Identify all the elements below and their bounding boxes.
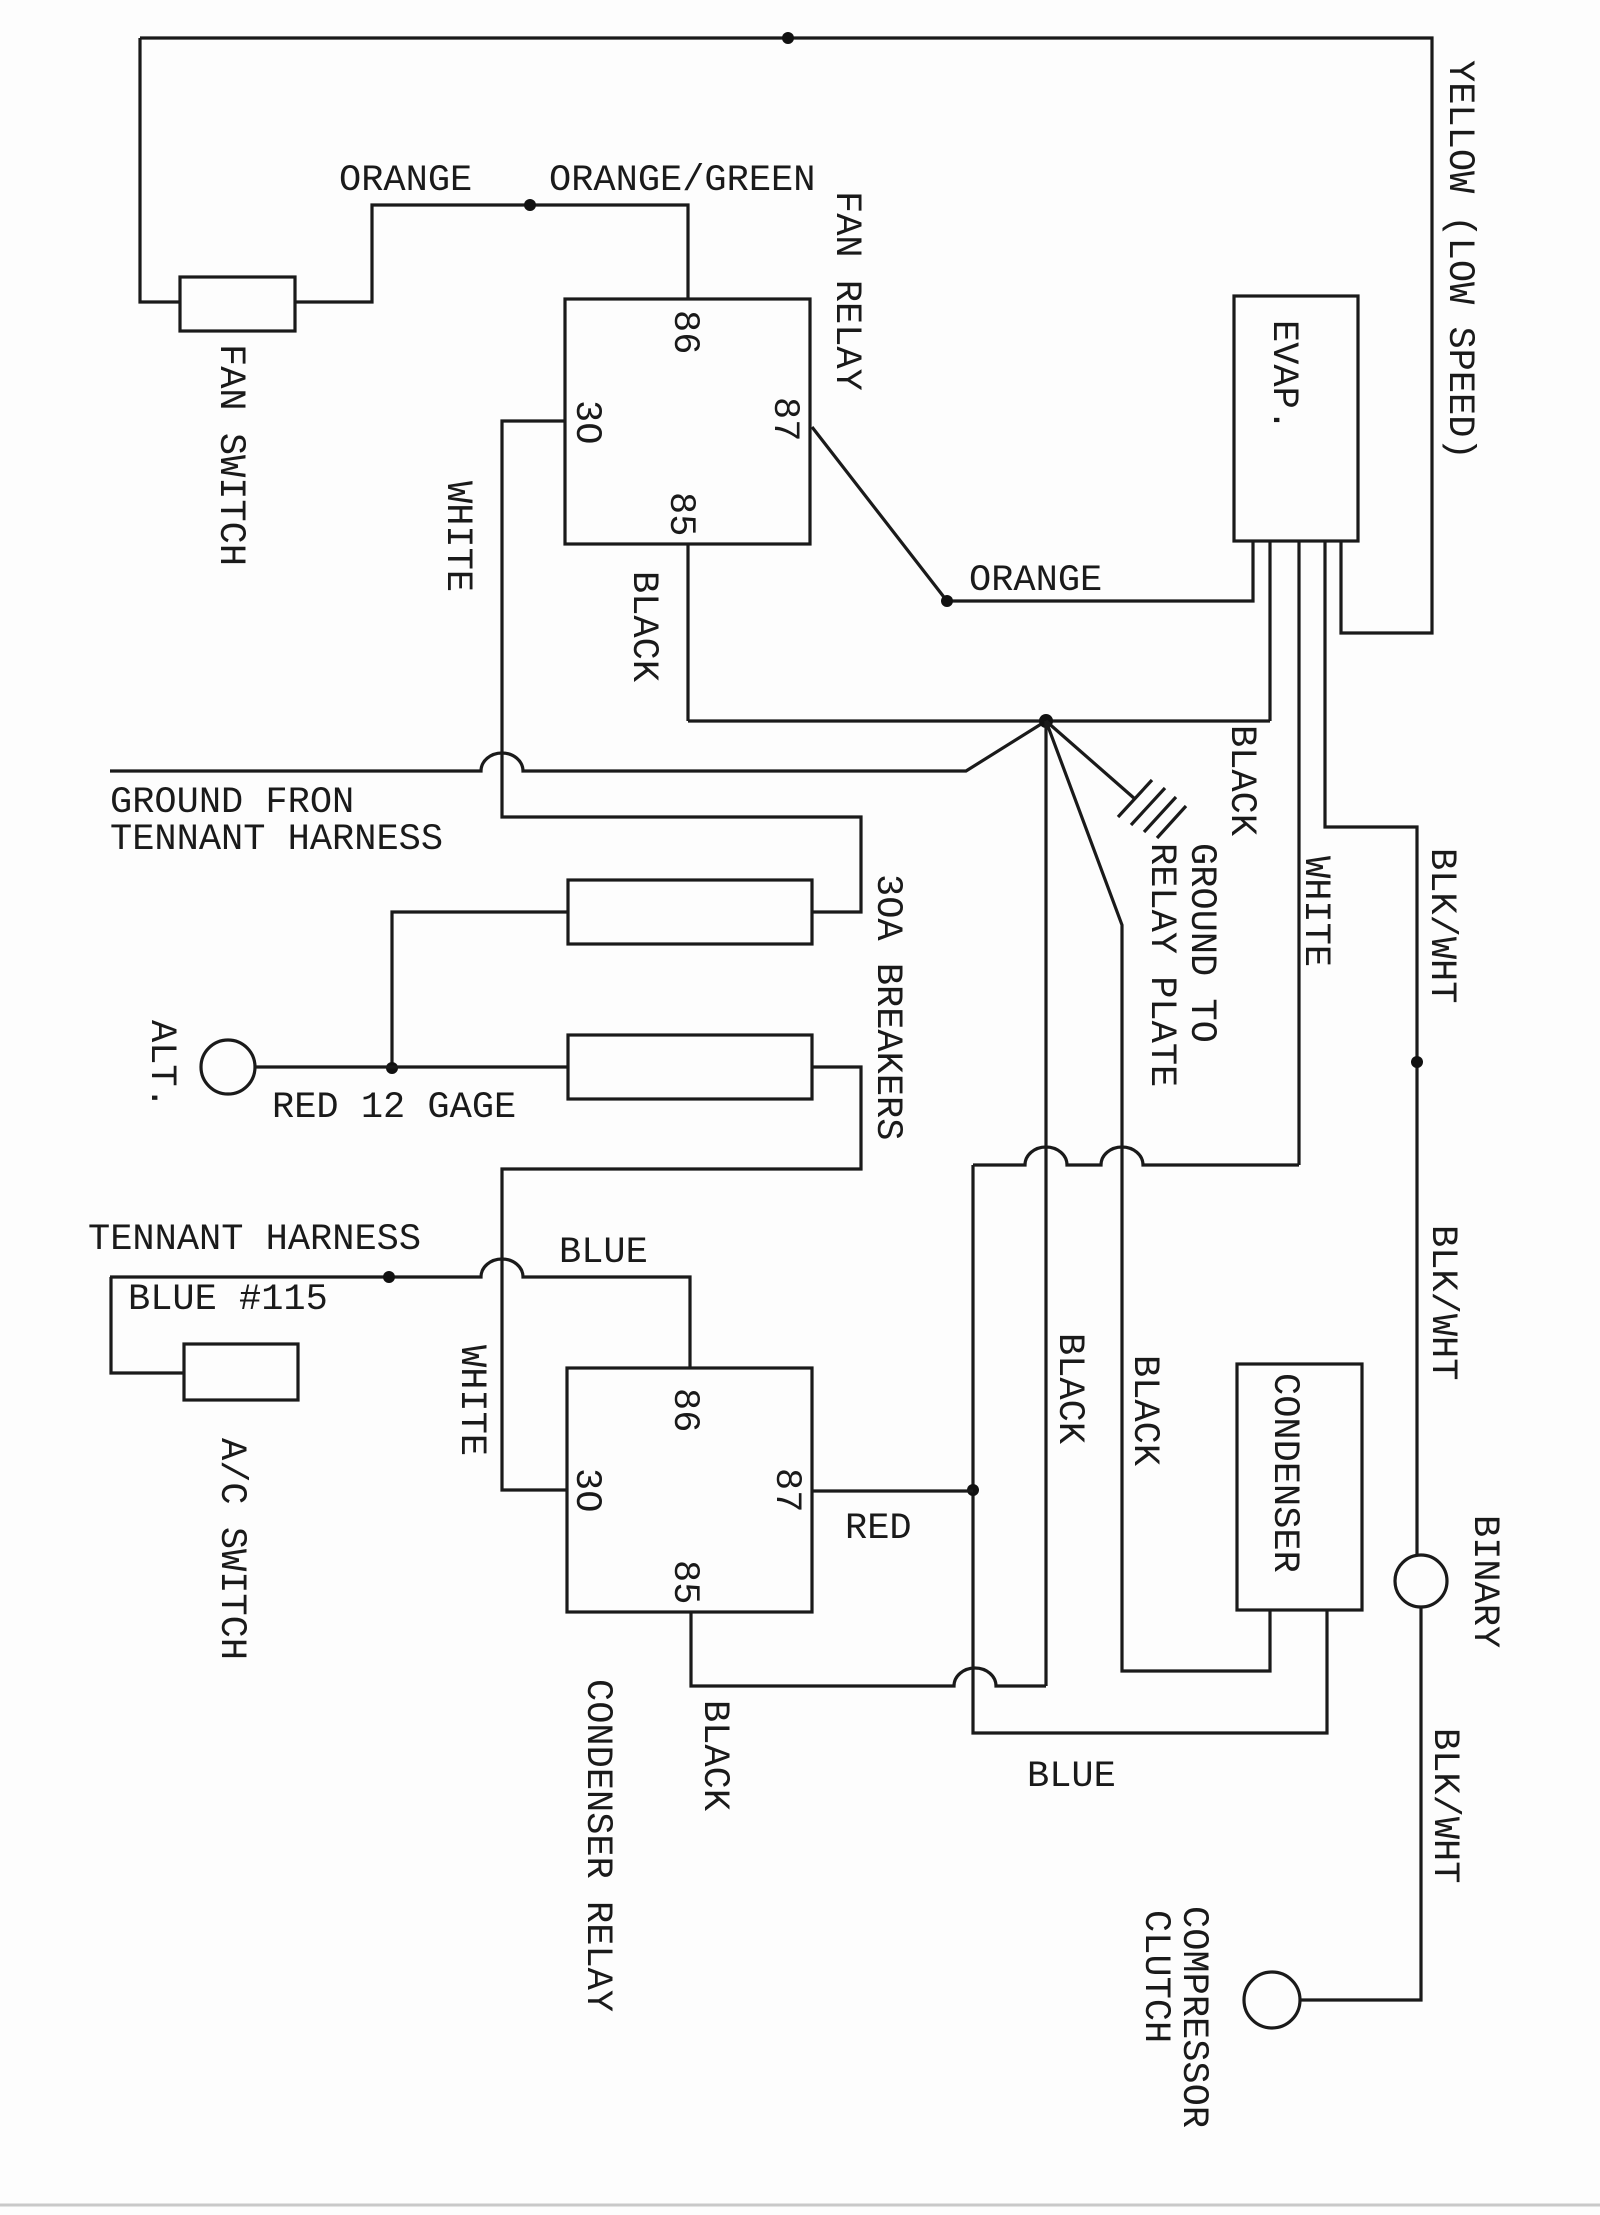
svg-text:RED: RED bbox=[845, 1508, 912, 1550]
svg-text:86: 86 bbox=[663, 310, 705, 354]
svg-text:ORANGE: ORANGE bbox=[969, 560, 1102, 602]
wire blue drop to condenser bbox=[973, 1165, 1327, 1733]
wire blk/wht binary to compressor clutch bbox=[1300, 1607, 1421, 2000]
svg-text:87: 87 bbox=[763, 397, 805, 441]
page scan edge line bbox=[0, 2204, 1600, 2207]
wire black ground to condenser (left pin) bbox=[1046, 721, 1270, 1671]
svg-text:WHITE: WHITE bbox=[450, 1345, 492, 1456]
svg-text:BLACK: BLACK bbox=[1220, 725, 1262, 837]
breaker CB1 30A bbox=[568, 880, 812, 944]
svg-text:FAN SWITCH: FAN SWITCH bbox=[209, 344, 251, 566]
wire white: fan relay 30 to breaker 1 bbox=[502, 421, 861, 912]
svg-text:TENNANT HARNESS: TENNANT HARNESS bbox=[88, 1219, 421, 1261]
wire blue: breaker 2 to condenser relay 30 bbox=[502, 1067, 861, 1490]
wire yellow (low speed) top run bbox=[140, 38, 1432, 633]
svg-text:TENNANT HARNESS: TENNANT HARNESS bbox=[110, 819, 443, 861]
svg-text:ORANGE: ORANGE bbox=[339, 160, 472, 202]
svg-text:BLK/WHT: BLK/WHT bbox=[1420, 848, 1462, 1003]
wire orange evap to fan relay 87 bbox=[812, 427, 1253, 601]
wire black evap drop bbox=[1268, 541, 1271, 721]
wire ground from tennant harness bbox=[110, 721, 1046, 771]
svg-text:3O: 3O bbox=[565, 1468, 607, 1512]
node ground junction dot bbox=[1039, 714, 1053, 728]
breaker CB2 30A bbox=[568, 1035, 812, 1099]
svg-text:86: 86 bbox=[663, 1388, 705, 1432]
svg-text:BLUE: BLUE bbox=[559, 1232, 648, 1274]
svg-text:RELAY PLATE: RELAY PLATE bbox=[1140, 843, 1182, 1087]
svg-text:COMPRESSOR: COMPRESSOR bbox=[1172, 1906, 1214, 2128]
node top junction dot bbox=[782, 32, 794, 44]
svg-text:CONDENSER: CONDENSER bbox=[1263, 1373, 1305, 1573]
svg-text:ORANGE/GREEN: ORANGE/GREEN bbox=[549, 160, 815, 202]
wire black condenser relay 85 bbox=[691, 1612, 1046, 1686]
svg-text:3OA BREAKERS: 3OA BREAKERS bbox=[866, 874, 908, 1140]
evap EVAP bbox=[1234, 296, 1358, 541]
svg-text:GROUND TO: GROUND TO bbox=[1180, 843, 1222, 1043]
svg-text:FAN RELAY: FAN RELAY bbox=[825, 191, 867, 391]
wire ground bus at relay plate bbox=[688, 719, 1270, 722]
node tennant dot bbox=[383, 1271, 395, 1283]
wire white evap riser bbox=[1297, 541, 1300, 1165]
svg-text:BINARY: BINARY bbox=[1463, 1515, 1505, 1648]
wire breaker1 left to alt line bbox=[392, 912, 568, 1068]
svg-text:BLACK: BLACK bbox=[622, 571, 664, 683]
svg-text:85: 85 bbox=[663, 1560, 705, 1604]
svg-text:BLK/WHT: BLK/WHT bbox=[1423, 1728, 1465, 1883]
node orange dot bbox=[941, 595, 953, 607]
svg-text:WHITE: WHITE bbox=[1294, 856, 1336, 967]
svg-text:BLACK: BLACK bbox=[1048, 1333, 1090, 1445]
svg-text:BLACK: BLACK bbox=[1123, 1355, 1165, 1467]
wire white cross run with hops bbox=[973, 1147, 1299, 1165]
alternator ALT bbox=[201, 1040, 255, 1094]
svg-text:85: 85 bbox=[659, 492, 701, 536]
svg-text:CLUTCH: CLUTCH bbox=[1134, 1910, 1176, 2043]
wire blk/wht evap to binary bbox=[1325, 541, 1417, 1555]
svg-text:87: 87 bbox=[765, 1468, 807, 1512]
ground to relay plate symbol lead bbox=[1046, 721, 1135, 799]
svg-text:BLK/WHT: BLK/WHT bbox=[1421, 1225, 1463, 1380]
svg-text:RED 12 GAGE: RED 12 GAGE bbox=[272, 1087, 516, 1129]
svg-text:3O: 3O bbox=[565, 400, 607, 444]
wire left drop to fan switch bbox=[140, 38, 180, 302]
svg-text:ALT.: ALT. bbox=[140, 1020, 182, 1109]
fan switch S1 bbox=[180, 277, 295, 331]
svg-text:GROUND FRON: GROUND FRON bbox=[110, 782, 354, 824]
a/c switch S2 box bbox=[184, 1344, 298, 1400]
node blk/wht dot bbox=[1411, 1056, 1423, 1068]
wire black ground junction down to condenser relay 85 bus bbox=[1044, 721, 1047, 1686]
condenser C1 bbox=[1237, 1364, 1362, 1610]
svg-text:BLUE #115: BLUE #115 bbox=[128, 1279, 328, 1321]
svg-text:YELLOW (LOW SPEED): YELLOW (LOW SPEED) bbox=[1438, 60, 1480, 460]
wire blue #115 to a/c switch bbox=[111, 1277, 184, 1373]
node orange junction dot bbox=[524, 199, 536, 211]
wire fan switch to fan relay pin 86 (orange) bbox=[295, 205, 688, 302]
wire red condenser relay 87 bbox=[812, 1489, 973, 1492]
op condenser relay K2 bbox=[567, 1368, 812, 1612]
wire red 12 gage bbox=[255, 1065, 568, 1068]
node dot red junction bbox=[386, 1062, 398, 1074]
svg-text:A/C SWITCH: A/C SWITCH bbox=[210, 1438, 252, 1660]
ground chassis hatch bbox=[1118, 780, 1186, 838]
svg-text:CONDENSER RELAY: CONDENSER RELAY bbox=[576, 1679, 618, 2012]
svg-text:BLACK: BLACK bbox=[693, 1700, 735, 1812]
wire black fan relay 85 drop bbox=[686, 544, 689, 721]
svg-text:WHITE: WHITE bbox=[436, 481, 478, 592]
wire tennant harness blue feed bbox=[110, 1259, 690, 1368]
node red junction dot bbox=[967, 1484, 979, 1496]
binary switch B1 bbox=[1395, 1555, 1447, 1607]
compressor clutch M1 bbox=[1244, 1972, 1300, 2028]
op fan relay K1 bbox=[565, 299, 810, 544]
svg-text:EVAP.: EVAP. bbox=[1262, 320, 1304, 431]
svg-text:BLUE: BLUE bbox=[1027, 1756, 1116, 1798]
